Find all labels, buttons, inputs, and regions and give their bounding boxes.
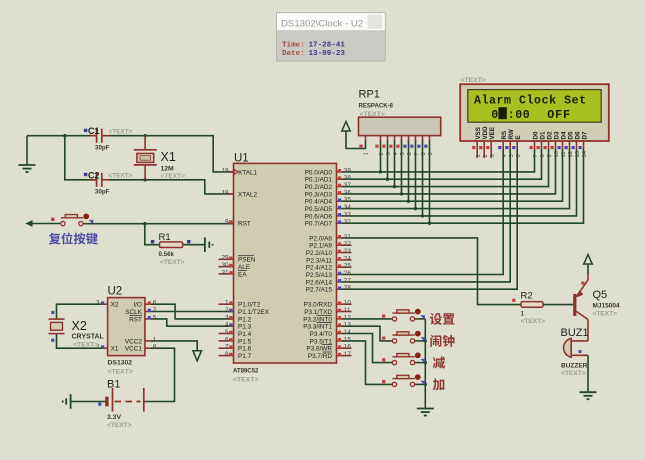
svg-text:12: 12	[344, 314, 352, 321]
svg-text:15: 15	[344, 336, 352, 343]
mcu U1 AT89C52	[233, 153, 337, 384]
svg-text:MJ15004: MJ15004	[593, 303, 620, 310]
svg-text:39: 39	[344, 167, 352, 174]
svg-text:X1: X1	[111, 346, 119, 353]
svg-text:1: 1	[363, 152, 369, 155]
wire P0.2 net to RP1/LCD D2	[341, 149, 548, 187]
svg-text:5: 5	[509, 154, 515, 157]
svg-text:I/O: I/O	[133, 302, 142, 309]
svg-text:D1: D1	[539, 131, 546, 139]
svg-text::00: :00	[508, 109, 531, 122]
svg-text:PSEN: PSEN	[238, 257, 256, 264]
svg-text:VCC1: VCC1	[125, 346, 142, 353]
pin P3.1/TXD (11) U1	[304, 307, 351, 316]
svg-text:<TEXT>: <TEXT>	[233, 377, 258, 384]
label 复位按键	[49, 233, 61, 245]
svg-text:P0.5/AD5: P0.5/AD5	[305, 206, 333, 213]
svg-text:3: 3	[490, 154, 496, 157]
wire U2 RST to P1.3	[151, 319, 234, 326]
pin 8 RP1	[417, 136, 427, 156]
wire reset button to RST pin	[83, 223, 233, 225]
svg-text:P0.3/AD3: P0.3/AD3	[305, 191, 333, 198]
wire P3.4 to button 3	[341, 334, 392, 363]
pin P0.7/AD7 (32) U1	[305, 219, 352, 228]
svg-text:RP1: RP1	[359, 89, 380, 101]
svg-text:VDD: VDD	[482, 126, 489, 140]
svg-text:4: 4	[225, 322, 229, 329]
wire LCD RS to P2.5	[341, 149, 503, 275]
node P0.6 RP1 junction	[421, 214, 424, 217]
node button3 junction	[424, 361, 427, 364]
svg-text:26: 26	[344, 270, 352, 277]
wire U2 I/O to P1.2	[151, 304, 234, 319]
button 加	[382, 374, 425, 386]
svg-text:P1.7: P1.7	[238, 353, 252, 360]
ground (buzzer)	[580, 391, 597, 393]
pin P3.0/RXD (10) U1	[304, 300, 352, 309]
svg-text:<TEXT>: <TEXT>	[521, 318, 546, 325]
svg-text:X2: X2	[72, 319, 87, 333]
svg-text:33: 33	[344, 211, 352, 218]
pin RST (9) U1	[225, 218, 251, 227]
svg-text:BUZ1: BUZ1	[561, 327, 589, 339]
pin P2.5/A13 (26) U1	[306, 270, 352, 279]
svg-text:<TEXT>: <TEXT>	[73, 342, 98, 349]
popup window DS1302\Clock - U2	[277, 13, 386, 61]
pin P3.5/T1 (15) U1	[310, 336, 352, 345]
svg-text:30pF: 30pF	[95, 189, 110, 196]
svg-text:P2.3/A11: P2.3/A11	[306, 257, 332, 264]
svg-text:9: 9	[225, 218, 229, 225]
svg-text:P3.0/RXD: P3.0/RXD	[304, 302, 333, 309]
pin P1.1/T2EX (2) U1	[225, 307, 270, 316]
svg-text:38: 38	[344, 175, 352, 182]
wire P0.7 net to RP1/LCD D7	[341, 149, 583, 223]
wire LCD RW to P2.6	[341, 149, 510, 282]
wire P0.6 net to RP1/LCD D6	[341, 149, 576, 216]
svg-text:12: 12	[568, 151, 574, 157]
wire C2 to XTAL2	[109, 180, 234, 194]
svg-text:<TEXT>: <TEXT>	[161, 173, 186, 180]
svg-text:P2.5/A13: P2.5/A13	[306, 272, 333, 279]
wire C2 drop	[65, 136, 97, 180]
pin 3 RP1	[382, 136, 392, 156]
svg-text:30: 30	[221, 262, 229, 269]
pin VCC2 (1) U2	[125, 336, 157, 345]
pin P1.6 (7) U1	[219, 344, 252, 353]
wire buzzer to ground	[587, 355, 589, 392]
svg-text:VEE: VEE	[489, 127, 496, 139]
pin 5 RP1	[396, 136, 406, 156]
svg-text:37: 37	[344, 182, 352, 189]
svg-text:CRYSTAL: CRYSTAL	[72, 334, 105, 341]
pin P2.0/A8 (21) U1	[309, 233, 351, 242]
svg-text:P2.0/A8: P2.0/A8	[309, 235, 332, 242]
node P0.7 RP1 junction	[428, 222, 431, 225]
svg-text:P1.1/T2EX: P1.1/T2EX	[238, 309, 270, 316]
svg-text:BUZZER: BUZZER	[561, 363, 588, 370]
svg-text:RS: RS	[501, 131, 508, 140]
svg-text:RST: RST	[129, 316, 142, 323]
pin P1.7 (8) U1	[219, 351, 252, 360]
pin ALE (30) U1	[219, 262, 251, 271]
svg-text:RW: RW	[508, 129, 515, 139]
svg-text:U1: U1	[234, 153, 249, 165]
svg-text:8: 8	[421, 152, 427, 155]
svg-text:VCC2: VCC2	[125, 338, 142, 345]
svg-text:7: 7	[414, 152, 420, 155]
svg-text:<TEXT>: <TEXT>	[561, 370, 586, 377]
pin SCLK (7) U2	[125, 307, 157, 316]
svg-text:1: 1	[476, 154, 482, 157]
wire P0.1 net to RP1/LCD D1	[341, 149, 541, 179]
buzzer BUZ1	[561, 327, 589, 377]
wire button 2 to common	[415, 340, 425, 342]
node RST junction	[143, 222, 146, 225]
svg-text:16: 16	[344, 344, 352, 351]
svg-text:C1: C1	[88, 126, 100, 136]
pin P1.2 (3) U1	[225, 314, 252, 323]
ground (top-left)	[19, 136, 36, 172]
pin P1.0/T2 (1) U1	[219, 300, 261, 309]
svg-text:XTAL1: XTAL1	[238, 169, 258, 176]
svg-text:14: 14	[344, 329, 352, 336]
svg-text:XTAL2: XTAL2	[238, 191, 258, 198]
wire buttons common vertical	[424, 319, 426, 409]
svg-text:P1.5: P1.5	[238, 338, 252, 345]
pin P0.3/AD3 (36) U1	[305, 189, 352, 198]
svg-text:22: 22	[344, 241, 352, 248]
svg-text:P2.7/A15: P2.7/A15	[306, 287, 333, 294]
pin VDD (2) LCD	[479, 126, 489, 158]
power arrow down (VCC2)	[193, 351, 202, 361]
svg-text:19: 19	[221, 167, 229, 174]
svg-text:E: E	[515, 135, 522, 139]
pin P2.2/A10 (23) U1	[306, 248, 352, 257]
svg-text:<TEXT>: <TEXT>	[160, 259, 185, 266]
pin D2 (9) LCD	[544, 131, 554, 157]
resistor pack RP1 RESPACK-8	[359, 89, 441, 136]
popup time text	[282, 42, 345, 50]
pin 9 RP1	[424, 136, 434, 156]
svg-text:10: 10	[344, 300, 352, 307]
button reset	[51, 214, 93, 226]
svg-text:29: 29	[221, 255, 229, 262]
pin P2.3/A11 (24) U1	[306, 255, 351, 264]
svg-text:6: 6	[407, 152, 413, 155]
svg-text:D0: D0	[532, 131, 539, 139]
pin P3.2/INT0 (12) U1	[303, 314, 351, 323]
svg-text:6: 6	[225, 336, 229, 343]
wire P3.3 to button 2	[341, 326, 392, 341]
wire R1 to terminal	[183, 244, 204, 246]
pin D6 (13) LCD	[572, 131, 582, 157]
svg-text:24: 24	[344, 255, 352, 262]
pin EA (31) U1	[219, 269, 248, 278]
wire button 3 to common	[415, 362, 425, 364]
svg-text:13: 13	[575, 151, 581, 157]
wire U2 SCLK to P1.1	[151, 311, 234, 313]
svg-text:D4: D4	[560, 131, 567, 139]
pin P0.1/AD1 (38) U1	[305, 175, 352, 184]
svg-text:R1: R1	[159, 232, 171, 243]
pin E (6) LCD	[512, 135, 522, 157]
pin P2.7/A15 (28) U1	[306, 285, 352, 294]
pin D5 (12) LCD	[565, 131, 575, 157]
pin P0.0/AD0 (39) U1	[305, 167, 352, 176]
svg-text:<TEXT>: <TEXT>	[107, 422, 132, 429]
wire X2 top	[57, 304, 102, 319]
svg-text:6: 6	[153, 300, 157, 307]
node button2 junction	[424, 339, 427, 342]
node P0.2 RP1 junction	[393, 185, 396, 188]
svg-text:5: 5	[153, 314, 157, 321]
pin RS (4) LCD	[498, 131, 508, 158]
svg-text:21: 21	[344, 233, 352, 240]
svg-text:OFF: OFF	[547, 109, 571, 122]
pin RST (5) U2	[129, 314, 157, 323]
svg-text:5: 5	[225, 329, 229, 336]
label 加	[433, 379, 445, 391]
svg-text:P1.6: P1.6	[238, 346, 252, 353]
svg-text:P3.6/WR: P3.6/WR	[306, 346, 332, 353]
svg-text:SCLK: SCLK	[125, 309, 142, 316]
svg-text:31: 31	[221, 269, 229, 276]
node P0.1 RP1 junction	[386, 178, 389, 181]
svg-text:X1: X1	[161, 150, 176, 164]
svg-text:D6: D6	[574, 131, 581, 139]
pin P0.5/AD5 (34) U1	[305, 204, 352, 213]
wire button 1 to common	[415, 318, 425, 320]
svg-text:7: 7	[533, 154, 539, 157]
pin D1 (8) LCD	[537, 131, 547, 157]
button 设置	[382, 309, 425, 321]
resistor R2	[512, 291, 545, 326]
svg-text:8: 8	[540, 154, 546, 157]
svg-text:P1.2: P1.2	[238, 316, 252, 323]
wire U2 VCC2 to power-down arrow	[151, 341, 197, 350]
pin P3.6/WR (16) U1	[306, 344, 351, 353]
pin 6 RP1	[403, 136, 413, 156]
svg-text:2: 2	[225, 307, 229, 314]
lcd text line2	[491, 107, 571, 122]
label 闹钟	[430, 335, 441, 347]
svg-text:RST: RST	[238, 220, 251, 227]
svg-text:11: 11	[344, 307, 351, 314]
node P0.5 RP1 junction	[414, 207, 417, 210]
svg-text:D2: D2	[546, 131, 553, 139]
pin P1.3 (4) U1	[225, 322, 252, 331]
wire C1 row from ground	[27, 135, 97, 137]
svg-text:2: 2	[483, 154, 489, 157]
svg-text:8: 8	[153, 344, 157, 351]
pin 1 RP1	[359, 136, 369, 156]
pin I/O (6) U2	[133, 300, 156, 309]
svg-text:12M: 12M	[161, 166, 175, 173]
resistor R1	[151, 232, 191, 266]
svg-text:1: 1	[521, 311, 525, 318]
svg-text:32: 32	[344, 219, 352, 226]
pin P2.4/A12 (25) U1	[306, 263, 352, 272]
svg-text:<TEXT>: <TEXT>	[108, 369, 133, 376]
popup date text	[282, 50, 345, 58]
svg-text:P3.7/RD: P3.7/RD	[308, 353, 333, 360]
svg-text:28: 28	[344, 285, 352, 292]
svg-text:13: 13	[344, 322, 352, 329]
svg-text:EA: EA	[238, 271, 247, 278]
pin P2.6/A14 (27) U1	[306, 277, 352, 286]
terminal (R1 right)	[205, 237, 213, 252]
svg-text:35: 35	[344, 197, 352, 204]
wire R2 to Q5 base	[543, 304, 573, 306]
svg-text:B1: B1	[107, 379, 120, 391]
ground (buttons)	[417, 408, 434, 410]
pin D7 (14) LCD	[579, 131, 589, 157]
pin X2 (3) U2	[96, 300, 119, 309]
svg-text:U2: U2	[108, 286, 123, 298]
pin VCC1 (8) U2	[125, 344, 157, 353]
svg-text:D7: D7	[581, 131, 588, 139]
svg-text:17-28-41: 17-28-41	[309, 42, 346, 50]
svg-text:2: 2	[379, 152, 385, 155]
svg-text:P2.6/A14: P2.6/A14	[306, 279, 333, 286]
wire P2.0 to R2	[341, 238, 521, 305]
pin P3.4/T0 (14) U1	[310, 329, 352, 338]
svg-text:8: 8	[225, 351, 229, 358]
svg-text:P2.4/A12: P2.4/A12	[306, 265, 333, 272]
wire P3.5 to button 4	[341, 341, 392, 385]
wire reset arrow to button	[32, 223, 60, 225]
svg-text:P1.3: P1.3	[238, 324, 252, 331]
terminal (B1 left)	[63, 394, 71, 409]
pin 2 RP1	[375, 136, 385, 156]
svg-text:P1.0/T2: P1.0/T2	[238, 302, 261, 309]
svg-text:P2.2/A10: P2.2/A10	[306, 250, 333, 257]
svg-text:C2: C2	[88, 170, 100, 180]
pin P0.2/AD2 (37) U1	[305, 182, 352, 191]
svg-text:36: 36	[344, 189, 352, 196]
pin P0.4/AD4 (35) U1	[305, 197, 352, 206]
svg-text:1: 1	[153, 336, 157, 343]
node P0.0 RP1 junction	[379, 170, 382, 173]
pin P1.5 (6) U1	[219, 336, 252, 345]
wire P0.4 net to RP1/LCD D4	[341, 149, 562, 201]
node X1 bottom junction	[143, 178, 146, 181]
wire LCD E to P2.7	[341, 149, 517, 289]
svg-text:5: 5	[400, 152, 406, 155]
node X1 top junction	[143, 134, 146, 137]
button 减	[382, 352, 425, 364]
wire P0.0 net to RP1/LCD D0	[341, 149, 534, 172]
power arrow (RP1)	[342, 122, 350, 132]
node junction C2 drop	[63, 134, 66, 137]
lcd module	[460, 77, 609, 141]
capacitor C2	[84, 170, 133, 195]
svg-text:DS1302\Clock - U2: DS1302\Clock - U2	[281, 19, 363, 30]
pin P2.1/A9 (22) U1	[309, 241, 351, 250]
svg-text:<TEXT>: <TEXT>	[109, 129, 133, 136]
svg-text:D5: D5	[567, 131, 574, 139]
pin 7 RP1	[410, 136, 420, 156]
svg-text:3.3V: 3.3V	[107, 414, 121, 421]
svg-text:7: 7	[153, 307, 157, 314]
svg-text:<TEXT>: <TEXT>	[593, 311, 618, 318]
svg-text:<TEXT>: <TEXT>	[461, 77, 486, 84]
wire RST to R1	[145, 224, 160, 245]
svg-text:P0.7/AD7: P0.7/AD7	[305, 221, 333, 228]
pin 4 RP1	[389, 136, 399, 156]
terminal arrow (RST net, left)	[25, 220, 32, 227]
node P0.4 RP1 junction	[407, 200, 410, 203]
svg-text:0: 0	[491, 109, 498, 122]
pin VEE (3) LCD	[486, 127, 496, 158]
pin RW (5) LCD	[505, 129, 515, 157]
svg-text:3: 3	[225, 314, 229, 321]
wire U2 VCC1 to battery	[144, 348, 175, 401]
svg-text:P2.1/A9: P2.1/A9	[309, 243, 332, 250]
svg-text:3: 3	[96, 300, 100, 307]
svg-text:P3.4/T0: P3.4/T0	[310, 331, 333, 338]
pin PSEN (29) U1	[219, 255, 256, 264]
svg-text:3: 3	[386, 152, 392, 155]
wire X2 bottom	[57, 334, 102, 349]
wire RP1 pins to P0 bus	[381, 140, 430, 223]
rtc U2 DS1302	[108, 286, 145, 376]
svg-text:0.56k: 0.56k	[159, 251, 175, 258]
svg-text:Q5: Q5	[593, 289, 608, 301]
wire P0.3 net to RP1/LCD D3	[341, 149, 555, 194]
svg-text:9: 9	[428, 152, 434, 155]
button 闹钟	[382, 331, 425, 343]
svg-text:17: 17	[344, 351, 352, 358]
wire P0.5 net to RP1/LCD D5	[341, 149, 569, 209]
wire C1 to XTAL1	[109, 136, 234, 172]
wire B1 left terminal	[71, 401, 107, 403]
svg-text:X2: X2	[111, 302, 119, 309]
pin P1.4 (5) U1	[219, 329, 252, 338]
svg-text:6: 6	[516, 154, 522, 157]
svg-text:P1.4: P1.4	[238, 331, 252, 338]
svg-text:7: 7	[225, 344, 229, 351]
pin X1 (2) U2	[96, 344, 119, 353]
node P0.3 RP1 junction	[400, 192, 403, 195]
svg-text:P0.4/AD4: P0.4/AD4	[305, 199, 333, 206]
svg-text:D3: D3	[553, 131, 560, 139]
pin D0 (7) LCD	[530, 131, 540, 157]
pin D3 (10) LCD	[551, 131, 561, 157]
svg-text:P3.1/TXD: P3.1/TXD	[304, 309, 332, 316]
svg-text:<TEXT>: <TEXT>	[109, 173, 133, 180]
svg-text:VSS: VSS	[475, 127, 482, 139]
svg-text:DS1302: DS1302	[108, 360, 133, 367]
label 设置	[430, 313, 442, 325]
svg-text:10: 10	[554, 151, 560, 157]
svg-text:18: 18	[221, 189, 229, 196]
svg-text:11: 11	[561, 151, 567, 157]
wire P3.2 to button 1	[341, 318, 392, 320]
pin XTAL1 (19) U1	[221, 167, 257, 176]
transistor Q5 MJ15004	[573, 274, 620, 342]
svg-text:1: 1	[225, 300, 229, 307]
svg-text:27: 27	[344, 277, 352, 284]
svg-text:Alarm Clock Set: Alarm Clock Set	[474, 95, 587, 108]
svg-text:P0.6/AD6: P0.6/AD6	[305, 213, 333, 220]
wire button 4 to common	[415, 383, 425, 385]
svg-text:Date:: Date:	[282, 50, 305, 58]
power arrow (Q5)	[584, 255, 592, 274]
svg-text:Time:: Time:	[282, 42, 305, 50]
node button4 junction	[424, 383, 427, 386]
